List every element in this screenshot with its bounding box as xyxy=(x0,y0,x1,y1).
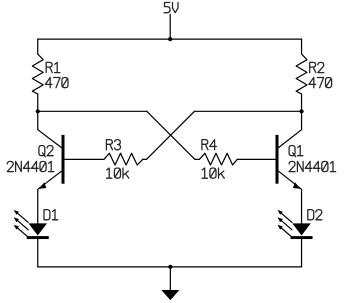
resistor R4 xyxy=(199,153,237,165)
wire left rail top xyxy=(37,39,39,54)
node B junction dot xyxy=(299,109,303,113)
wire R4 left stub xyxy=(195,158,199,160)
D1 light arrow 3 xyxy=(15,226,28,237)
wire D1 to bottom rail xyxy=(37,239,39,267)
value 2N4401 (Q2) xyxy=(7,161,54,171)
Q2 collector wire xyxy=(38,111,62,147)
transistor Q1 xyxy=(276,111,302,224)
label R4 xyxy=(202,140,216,150)
label D2 xyxy=(308,210,322,220)
D2 cathode bar xyxy=(291,236,313,239)
LED D1 xyxy=(14,210,49,239)
resistor R1 xyxy=(32,54,43,94)
wire R4 to Q1 base xyxy=(237,158,275,160)
label Q2 xyxy=(39,146,53,157)
value 2N4401 (Q1) xyxy=(289,161,336,171)
wire ground drop xyxy=(169,267,171,290)
resistor R2 xyxy=(296,54,307,94)
wire node A to cross xyxy=(38,110,147,112)
label Q1 xyxy=(289,146,303,157)
wire R1 to node A xyxy=(37,94,39,111)
D1 light arrow 1 xyxy=(15,211,28,222)
wire bottom rail xyxy=(38,266,302,268)
wire top rail xyxy=(38,38,302,40)
wire node B to cross xyxy=(195,110,302,112)
LED D2 xyxy=(278,210,313,239)
Q2 base bar xyxy=(62,135,65,184)
wire cross diagonal B to R3 xyxy=(146,111,194,159)
value 10k (R4) xyxy=(202,168,224,178)
D2 light arrow 1 xyxy=(279,211,292,222)
wire cross diagonal A to R4 xyxy=(147,111,195,159)
Q1 base bar xyxy=(276,135,279,184)
wire R3 right stub xyxy=(143,158,147,160)
D2 anode triangle xyxy=(292,223,311,235)
D1 anode triangle xyxy=(29,223,48,235)
wire right rail top xyxy=(301,39,303,54)
node A junction dot xyxy=(36,109,40,113)
D2 light arrow 3 xyxy=(279,226,292,237)
wire 5V drop xyxy=(169,14,171,39)
value 10k (R3) xyxy=(107,168,129,178)
wire R3 to Q2 base xyxy=(65,158,104,160)
junction ground rail xyxy=(168,265,172,269)
Q1 emitter wire xyxy=(279,171,302,224)
ground xyxy=(161,290,179,300)
label R3 xyxy=(106,140,120,150)
label D1 xyxy=(44,210,58,220)
junction 5V rail xyxy=(168,37,172,41)
value 470 (R2) xyxy=(309,78,332,88)
Q1 emitter arrow xyxy=(293,182,301,189)
resistor R3 xyxy=(104,153,143,165)
Q2 emitter arrow xyxy=(39,182,47,189)
D1 cathode bar xyxy=(27,236,49,239)
label R2 xyxy=(310,62,324,72)
label R1 xyxy=(46,62,60,72)
wire D2 to bottom rail xyxy=(301,239,303,267)
D1 light arrow 2 xyxy=(15,219,28,230)
wire R2 to node B xyxy=(301,94,303,111)
D2 light arrow 2 xyxy=(279,219,292,230)
net 5V label xyxy=(164,3,178,13)
value 470 (R1) xyxy=(45,78,68,88)
Q1 collector wire xyxy=(279,111,302,147)
Q2 emitter wire xyxy=(38,171,62,224)
transistor Q2 xyxy=(38,111,65,224)
